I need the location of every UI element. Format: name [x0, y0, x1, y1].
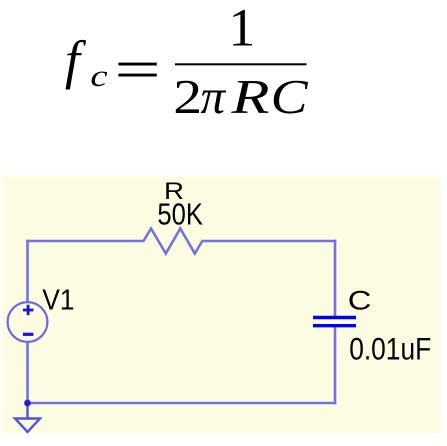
svg-text:f: f	[65, 30, 87, 90]
svg-text:2: 2	[173, 69, 202, 124]
svg-text:c: c	[90, 58, 108, 92]
svg-text:R: R	[230, 70, 269, 124]
svg-text:π: π	[201, 69, 227, 124]
svg-text:C: C	[271, 70, 309, 124]
svg-text:50K: 50K	[157, 197, 203, 232]
svg-text:1: 1	[229, 0, 256, 58]
svg-text:0.01uF: 0.01uF	[349, 331, 431, 367]
svg-text:C: C	[348, 286, 372, 316]
svg-text:V1: V1	[42, 285, 74, 317]
